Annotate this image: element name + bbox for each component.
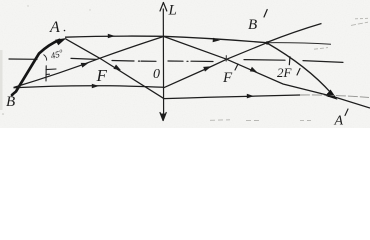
svg-text:A: A [334, 114, 344, 129]
svg-text:F: F [222, 70, 233, 86]
svg-text:A: A [49, 19, 60, 36]
svg-text:0: 0 [153, 67, 160, 82]
svg-text:B: B [6, 94, 15, 110]
svg-text:2F: 2F [277, 65, 293, 80]
svg-text:F: F [96, 66, 108, 85]
svg-text:L: L [168, 3, 177, 19]
svg-text:B: B [248, 17, 257, 33]
